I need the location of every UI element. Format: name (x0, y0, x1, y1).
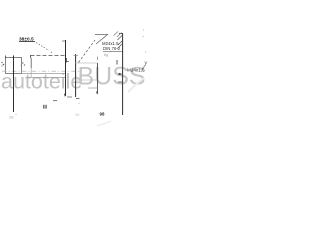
svg-text:98: 98 (75, 112, 80, 117)
svg-text:98: 98 (100, 111, 105, 116)
svg-text:38: 38 (9, 115, 14, 120)
svg-text:6g: 6g (104, 53, 108, 57)
svg-text:DIN 76-2: DIN 76-2 (103, 46, 121, 51)
